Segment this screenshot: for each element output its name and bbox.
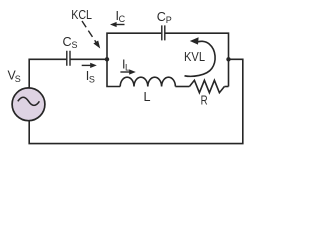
IC arrowhead bbox=[110, 22, 117, 27]
wire: outer bottom loop (source bottom, bottom, right side up to node B stub) bbox=[29, 59, 243, 143]
svg-text:C: C bbox=[63, 35, 72, 49]
KVL arrowhead bbox=[190, 37, 199, 44]
IS arrowhead bbox=[90, 63, 97, 68]
voltage source VS bbox=[12, 88, 45, 121]
capacitor CP plates bbox=[162, 25, 165, 40]
svg-text:L: L bbox=[144, 90, 151, 104]
node A bbox=[105, 57, 109, 61]
dashed KCL arrow bbox=[82, 21, 98, 45]
IS arrow (points right) bbox=[82, 64, 94, 66]
wire: node A down to middle branch bbox=[107, 59, 120, 86]
capacitor CS plates bbox=[67, 51, 70, 66]
KCL arrowhead bbox=[93, 41, 100, 49]
wire: Cp right plate to inner-loop right side down to R branch bbox=[165, 33, 228, 86]
inductor L bbox=[120, 77, 175, 86]
node B bbox=[226, 57, 230, 61]
KVL loop arrow arc bbox=[185, 41, 216, 76]
sine wave inside VS bbox=[18, 97, 40, 105]
svg-text:C: C bbox=[119, 14, 126, 24]
wire: node A up to inner-loop top bbox=[107, 33, 161, 59]
IC arrow (points left) bbox=[113, 24, 125, 26]
IL arrow (points right) bbox=[120, 71, 132, 73]
svg-text:S: S bbox=[15, 74, 21, 84]
svg-text:KVL: KVL bbox=[184, 50, 205, 64]
svg-text:R: R bbox=[201, 94, 208, 108]
svg-text:KCL: KCL bbox=[71, 8, 92, 22]
wire: Cs right plate to node A bbox=[70, 58, 107, 60]
wire: between inductor L and resistor R bbox=[175, 86, 189, 88]
svg-text:P: P bbox=[166, 15, 172, 25]
resistor R bbox=[189, 80, 224, 92]
wire: outer top-left (source top to Cs left plate) bbox=[29, 59, 66, 87]
svg-text:S: S bbox=[89, 75, 95, 85]
svg-text:S: S bbox=[72, 40, 78, 50]
wire: resistor R to right corner bbox=[224, 86, 228, 88]
svg-text:C: C bbox=[157, 10, 166, 24]
IL arrowhead bbox=[129, 69, 136, 74]
